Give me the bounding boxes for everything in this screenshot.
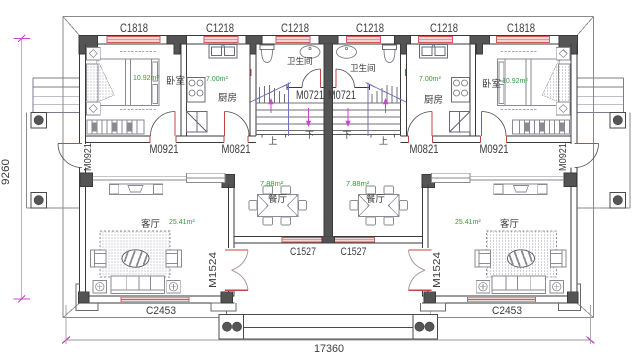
svg-text:卫生间: 卫生间 — [287, 56, 313, 66]
svg-text:M0721: M0721 — [296, 90, 324, 102]
svg-text:餐厅: 餐厅 — [366, 193, 386, 205]
svg-text:10.92m²: 10.92m² — [502, 78, 528, 85]
center dining pier — [322, 236, 335, 243]
svg-text:C1218: C1218 — [356, 23, 384, 35]
svg-text:25.41m²: 25.41m² — [169, 219, 195, 226]
svg-text:7.00m²: 7.00m² — [419, 76, 441, 83]
svg-text:10.92m²: 10.92m² — [133, 75, 159, 82]
svg-text:M1524: M1524 — [207, 252, 219, 288]
svg-text:卧室: 卧室 — [166, 75, 185, 87]
svg-text:客厅: 客厅 — [141, 218, 161, 230]
svg-text:M0821: M0821 — [410, 144, 439, 156]
svg-text:M0921: M0921 — [82, 143, 94, 171]
svg-text:M0721: M0721 — [328, 90, 356, 102]
left dimension extension bottom — [14, 298, 31, 300]
svg-text:C1818: C1818 — [120, 23, 148, 35]
svg-text:9260: 9260 — [0, 159, 12, 185]
svg-text:卫生间: 卫生间 — [350, 63, 376, 73]
left unit geometry — [27, 17, 329, 345]
svg-text:C1527: C1527 — [290, 246, 316, 258]
svg-text:C1218: C1218 — [281, 23, 309, 35]
svg-text:M0921: M0921 — [150, 144, 179, 156]
svg-text:客厅: 客厅 — [500, 218, 520, 230]
svg-text:C2453: C2453 — [146, 305, 176, 317]
svg-text:M1524: M1524 — [431, 252, 443, 288]
svg-text:M0921: M0921 — [557, 143, 569, 171]
svg-text:7.00m²: 7.00m² — [206, 76, 228, 83]
left dimension line — [21, 39, 23, 300]
right unit geometry (mirror) — [328, 17, 630, 345]
left dimension extension top — [14, 38, 31, 40]
svg-text:7.88m²: 7.88m² — [346, 179, 370, 188]
svg-text:C1818: C1818 — [507, 23, 535, 35]
svg-text:卧室: 卧室 — [482, 78, 501, 90]
svg-text:C1218: C1218 — [430, 23, 458, 35]
svg-text:25.41m²: 25.41m² — [455, 219, 481, 226]
svg-text:M0921: M0921 — [480, 144, 509, 156]
svg-text:上: 上 — [268, 136, 277, 146]
center party wall — [324, 44, 333, 237]
left dimension tick bottom — [18, 296, 25, 303]
svg-text:C2453: C2453 — [492, 305, 522, 317]
svg-text:下: 下 — [342, 130, 351, 140]
center top pier — [319, 36, 338, 44]
svg-text:M0821: M0821 — [222, 144, 251, 156]
svg-text:7.88m²: 7.88m² — [260, 179, 284, 188]
svg-text:C1527: C1527 — [341, 246, 367, 258]
svg-text:下: 下 — [305, 130, 314, 140]
svg-text:餐厅: 餐厅 — [268, 193, 288, 205]
svg-text:厨房: 厨房 — [424, 94, 443, 106]
left dimension tick top — [18, 35, 25, 42]
svg-text:17360: 17360 — [314, 343, 344, 355]
svg-text:上: 上 — [379, 136, 388, 146]
svg-text:C1218: C1218 — [206, 23, 234, 35]
svg-text:厨房: 厨房 — [218, 92, 237, 104]
